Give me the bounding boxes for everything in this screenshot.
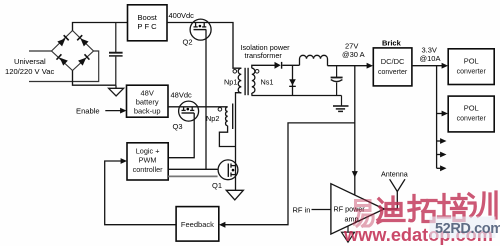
- wire feedback to controller input with arrow: [105, 161, 176, 225]
- wire stub arrow 2: [437, 154, 442, 156]
- node Np2 phase dot: [218, 108, 222, 112]
- char pei: [439, 195, 467, 221]
- transformer T1 core: [245, 68, 248, 95]
- diode D2 upper-right of bridge: [77, 35, 89, 47]
- svg-text:@10A: @10A: [420, 54, 441, 63]
- ground triangle below RF amp: [342, 226, 355, 242]
- ground IEC at output cap: [333, 96, 349, 112]
- label Isolation power transformer: [241, 43, 291, 60]
- wire diode to inductor: [282, 64, 299, 66]
- svg-text:Np2: Np2: [206, 114, 219, 123]
- wire DC+ rail from bridge to Boost PFC: [73, 23, 128, 31]
- svg-text:PWM: PWM: [139, 156, 157, 165]
- wire DC/DC to POL1 with arrow: [412, 65, 443, 67]
- block POL converter 1: [448, 49, 494, 85]
- node Ns1 phase dot: [255, 70, 259, 74]
- svg-text:Logic +: Logic +: [136, 147, 160, 156]
- svg-text:Enable: Enable: [76, 107, 100, 116]
- svg-text:Q1: Q1: [212, 181, 222, 190]
- svg-text:battery: battery: [136, 98, 159, 107]
- svg-text:48Vdc: 48Vdc: [171, 91, 193, 100]
- svg-text:48V: 48V: [141, 89, 154, 98]
- wire inductor to DC/DC converter with arrow: [328, 65, 369, 67]
- label 3.3V @10A: [420, 46, 441, 64]
- char tuo: [409, 196, 436, 222]
- svg-text:Ns1: Ns1: [261, 78, 274, 87]
- svg-text:Universal: Universal: [14, 57, 46, 66]
- svg-text:120/220 V Vac: 120/220 V Vac: [5, 67, 54, 76]
- wire DC- rail from bridge: [73, 71, 117, 86]
- svg-text:Antenna: Antenna: [381, 170, 408, 179]
- transistor Q1 MOSFET: [218, 160, 238, 180]
- wire secondary bottom rail: [252, 93, 342, 96]
- svg-text:converter: converter: [457, 69, 487, 76]
- op-amp RF power amp triangle: [331, 184, 384, 234]
- transistor Q2 MOSFET: [190, 19, 211, 40]
- wire Q2 gate down to PWM controller output: [205, 30, 207, 170]
- label 27V @30A: [342, 42, 365, 60]
- transformer T1 winding Np1: [238, 68, 241, 93]
- svg-text:DC/DC: DC/DC: [381, 57, 405, 66]
- ground triangle at bridge cap: [109, 85, 124, 96]
- wire 48V rail through Q3 to Np2: [168, 106, 228, 108]
- wire controller lower output to Q1: [168, 175, 217, 177]
- block DC/DC converter: [373, 48, 412, 86]
- wire 27V tap down to RF amp with arrow: [354, 66, 356, 195]
- wire 3.3V distribution bus down: [436, 66, 438, 169]
- svg-text:Np1: Np1: [224, 78, 237, 87]
- diode D4 lower-right of bridge: [78, 54, 90, 66]
- wire controller output to Q1 and Q2 gates: [168, 168, 217, 170]
- block Boost PFC: [128, 5, 168, 41]
- svg-text:POL: POL: [464, 57, 479, 66]
- svg-text:controller: controller: [133, 165, 164, 174]
- svg-text:POL: POL: [464, 104, 479, 113]
- diode D1 upper-left of bridge: [57, 35, 69, 47]
- svg-text:Feedback: Feedback: [181, 220, 214, 229]
- svg-text:Brick: Brick: [382, 39, 402, 48]
- node Np1 phase dot: [233, 70, 237, 74]
- ground triangle at Q1 source: [226, 190, 243, 200]
- transformer Np2 core: [232, 104, 234, 130]
- wire Np1 bottom to Q1 drain: [236, 93, 242, 191]
- capacitor output cap polarized: [331, 66, 343, 96]
- transformer T1 winding Ns1: [252, 68, 255, 93]
- svg-text:converter: converter: [378, 69, 408, 76]
- label Universal 120/220 V Vac: [5, 57, 54, 76]
- diode D5 secondary rectifier: [275, 62, 283, 69]
- svg-text:400Vdc: 400Vdc: [169, 11, 195, 20]
- wire Enable arrow into battery block: [105, 110, 121, 112]
- block Logic + PWM controller: [127, 143, 168, 180]
- transistor Q3 MOSFET: [179, 101, 199, 121]
- svg-text:transformer: transformer: [245, 51, 283, 60]
- svg-text:back-up: back-up: [134, 107, 161, 116]
- svg-text:converter: converter: [457, 116, 487, 123]
- wire Np2 bottom to Q1 drain: [219, 126, 235, 147]
- antenna symbol: [384, 179, 405, 209]
- block 48V battery back-up: [127, 85, 169, 117]
- wire Ns1 output top: [252, 65, 275, 68]
- transformer winding Np2: [226, 107, 228, 126]
- char yi: [354, 201, 373, 227]
- wire Q3 gate to controller: [168, 113, 194, 158]
- svg-text:Q3: Q3: [173, 122, 183, 131]
- diode D3 lower-left of bridge: [56, 54, 68, 66]
- wire RF input: [312, 209, 331, 211]
- svg-text:@30 A: @30 A: [342, 50, 365, 59]
- wire feedback sense line to Feedback block: [225, 123, 355, 225]
- wire stub arrow 3: [437, 167, 442, 169]
- inductor L1 output filter: [300, 55, 328, 65]
- wire AC input line 2: [29, 51, 99, 82]
- capacitor bulk input cap: [109, 23, 123, 86]
- svg-text:52RD.com: 52RD.com: [435, 221, 500, 237]
- svg-text:Q2: Q2: [183, 38, 193, 47]
- svg-text:PFC: PFC: [137, 22, 158, 31]
- block Feedback: [176, 207, 219, 242]
- watermark 52RD.com: [430, 217, 500, 239]
- wire stub arrow 1: [437, 140, 442, 142]
- wire AC input line 1: [29, 50, 52, 52]
- diode D6 freewheel with arrow down: [289, 65, 296, 95]
- watermark red Chinese characters: [354, 192, 496, 226]
- bridge rectifier diamond: [52, 31, 94, 71]
- wire 400V rail from Boost PFC to transformer: [167, 23, 241, 69]
- wire branch to POL2 with arrow: [437, 113, 443, 115]
- char xun: [469, 192, 496, 218]
- svg-text:RF in: RF in: [293, 206, 311, 215]
- block POL converter 2: [448, 96, 494, 132]
- char di: [378, 197, 404, 223]
